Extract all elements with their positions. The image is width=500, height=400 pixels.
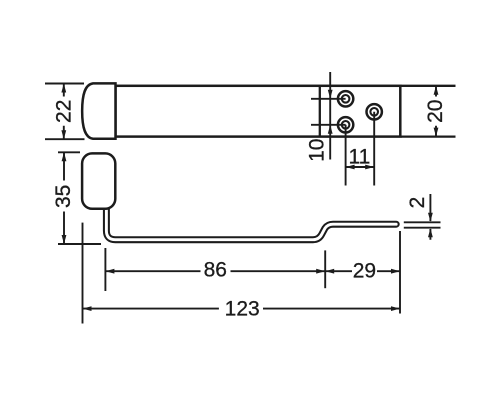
dim 22: dimension line: [63, 84, 65, 140]
dim 29: shared extension line (jog): [324, 250, 326, 288]
dim 11: dimension line: [346, 166, 375, 168]
dim 11: extension from hole H3: [373, 112, 375, 186]
arrow 10 up (outside, below): [328, 125, 333, 134]
arrow 123 right: [391, 306, 400, 311]
svg-text:123: 123: [225, 297, 260, 320]
dim 35: bottom extension line: [58, 243, 101, 245]
arrow 2 down (outside, above): [428, 213, 433, 222]
arrow 35 up: [62, 152, 67, 161]
svg-text:22: 22: [52, 100, 75, 123]
top view: bar body: [116, 86, 401, 137]
arrow 22 up: [61, 84, 66, 93]
hole H2 (bottom-left) outer: [338, 117, 353, 132]
hole H2 inner: [342, 121, 350, 129]
dim 29: right extension line (wire end): [399, 231, 401, 314]
hole H3 inner: [370, 108, 378, 116]
arrow 11 right: [365, 165, 374, 170]
arrow 29 left: [325, 269, 334, 274]
arrow 20 up: [434, 86, 439, 95]
arrow 22 down: [61, 130, 66, 139]
arrow 86 left: [105, 269, 114, 274]
hole H1 inner: [342, 95, 350, 103]
arrow 10 down (outside, above): [328, 90, 333, 99]
dim 20: dimension line: [435, 86, 437, 137]
dim 2: top extension line: [404, 221, 441, 223]
dim 123: dimension line: [83, 308, 401, 310]
hole H3 (right) outer: [367, 104, 382, 119]
svg-text:86: 86: [204, 258, 227, 281]
side view: bent wire (outer black): [106, 206, 396, 240]
svg-text:29: 29: [353, 259, 376, 282]
svg-text:10: 10: [306, 139, 329, 162]
svg-text:35: 35: [52, 185, 75, 208]
dim 10: center line of hole H2: [311, 124, 346, 126]
side view: bent wire (inner white): [106, 204, 396, 240]
dim 2: dimension line: [429, 194, 431, 240]
dim 2: bottom extension line: [404, 227, 441, 229]
arrow 35 down: [62, 235, 67, 244]
arrow 29 right: [391, 269, 400, 274]
dim 22: bottom extension line: [45, 138, 85, 140]
top view: left rounded cap: [82, 83, 115, 138]
dim 22: top extension line: [45, 83, 84, 85]
dim 20: bottom extension line: [401, 135, 456, 137]
dim 29: dimension line: [325, 270, 400, 272]
dim 10: center line of hole H1: [311, 98, 346, 100]
dim 11: extension from hole H2: [345, 125, 347, 186]
dim 35: top extension line: [58, 151, 80, 153]
dim 86: dimension line: [105, 270, 325, 272]
arrow 86 right: [316, 269, 325, 274]
dim 10: dimension line: [329, 72, 331, 160]
arrow 11 left: [346, 165, 355, 170]
arrow 2 up (outside, below): [428, 228, 433, 237]
dim 123: left extension line: [82, 223, 84, 324]
svg-text:2: 2: [406, 197, 429, 209]
top view: plate left edge line: [319, 86, 321, 137]
svg-text:20: 20: [424, 100, 447, 123]
svg-text:11: 11: [348, 146, 370, 169]
hole H1 (top-left) outer: [338, 91, 353, 106]
dim 20: top extension line: [401, 85, 456, 87]
arrow 123 left: [83, 306, 92, 311]
arrow 20 down: [434, 128, 439, 137]
dim 35: dimension line: [63, 152, 65, 244]
side view: knob (rounded end): [82, 153, 115, 208]
dim 86: left extension line: [104, 248, 106, 291]
